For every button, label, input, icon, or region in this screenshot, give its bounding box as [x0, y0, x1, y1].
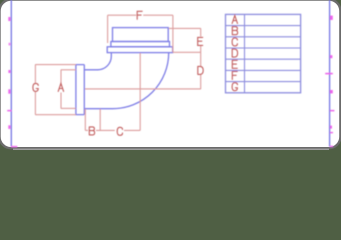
- right drawing-frame border line: [329, 0, 331, 147]
- dimension F right extension line: [172, 15, 174, 52]
- table label C: [232, 38, 237, 46]
- dimension B left extension line: [84, 109, 86, 130]
- centerline extension for D: [85, 88, 201, 90]
- left frame bottom dash: [11, 146, 17, 148]
- dimension B right extension line: [99, 109, 101, 130]
- table column divider: [244, 14, 246, 92]
- table label G: [232, 83, 237, 91]
- dimension G line upper segment: [34, 65, 36, 84]
- dimension F left extension line: [107, 15, 109, 43]
- right frame tick 1: [330, 16, 333, 20]
- dimension label E: [198, 37, 203, 45]
- dimension A line upper segment: [60, 70, 62, 84]
- dimension label A: [58, 83, 63, 91]
- socket cup inner edge: [83, 65, 85, 115]
- left frame tick 3: [8, 70, 10, 73]
- dimension C line right segment: [124, 129, 140, 131]
- dimension table outer border: [226, 14, 301, 92]
- table label A: [232, 16, 237, 24]
- dimension B line left stub: [85, 129, 88, 131]
- table label E: [232, 60, 237, 68]
- elbow leg bottom and outer radius: [84, 53, 168, 109]
- right frame bottom dash: [330, 146, 334, 147]
- dimension E line upper segment: [200, 28, 202, 36]
- right frame tick 2: [330, 55, 332, 58]
- right frame dash tick 5: [330, 110, 334, 112]
- dimension G line lower segment: [34, 92, 36, 115]
- right frame dash tick 3: [325, 73, 333, 75]
- table label F: [232, 72, 237, 80]
- socket cup outline: [76, 65, 84, 115]
- dimension A bottom extension line: [61, 107, 76, 109]
- flange raised face: [113, 28, 169, 42]
- page background: [0, 0, 341, 150]
- dimension label C: [117, 127, 122, 135]
- dimension B-C line middle segment: [96, 129, 115, 131]
- left frame tick 4: [8, 89, 10, 93]
- left frame tick 1: [8, 17, 10, 21]
- page panel with rounded gray border: [0, 0, 340, 148]
- dimension A top extension line: [61, 69, 76, 71]
- dimension E top extension line: [169, 27, 201, 29]
- dimension G top extension line: [35, 64, 76, 66]
- elbow inner wall and inner radius to leg top: [84, 53, 111, 70]
- dimension E line lower segment: [200, 46, 202, 53]
- dimension E bottom extension line: [173, 51, 201, 53]
- bottom shadow strip: [13, 149, 329, 150]
- dimension G bottom extension line: [35, 114, 76, 116]
- flange plate: [107, 47, 172, 53]
- table row line 2: [226, 36, 301, 38]
- dimension F line right segment: [143, 14, 173, 16]
- dimension C right extension line: [139, 53, 141, 130]
- table label D: [232, 49, 237, 57]
- left frame dash tick 5: [7, 110, 11, 112]
- left drawing-frame border line: [10, 0, 12, 147]
- table row line 5: [226, 69, 301, 71]
- dimension D line upper segment: [200, 52, 202, 66]
- table row line 1: [226, 25, 301, 27]
- table label B: [232, 27, 237, 35]
- dimension label F: [137, 11, 142, 19]
- right frame tick 6: [330, 126, 332, 129]
- dimension D line lower segment: [200, 75, 202, 89]
- left frame tick 2: [9, 43, 11, 46]
- table row line 3: [226, 47, 301, 49]
- table row line 6: [226, 81, 301, 83]
- dimension label D: [198, 66, 203, 74]
- left frame tick 6: [8, 125, 10, 129]
- right frame dash tick 7: [330, 132, 333, 133]
- dimension A line lower segment: [60, 93, 62, 109]
- dimension F line left segment: [108, 14, 137, 16]
- dimension label B: [89, 127, 94, 135]
- table row line 4: [226, 58, 301, 60]
- flange hub band: [111, 42, 170, 47]
- dimension label G: [33, 83, 38, 91]
- right frame tick 4: [330, 90, 333, 93]
